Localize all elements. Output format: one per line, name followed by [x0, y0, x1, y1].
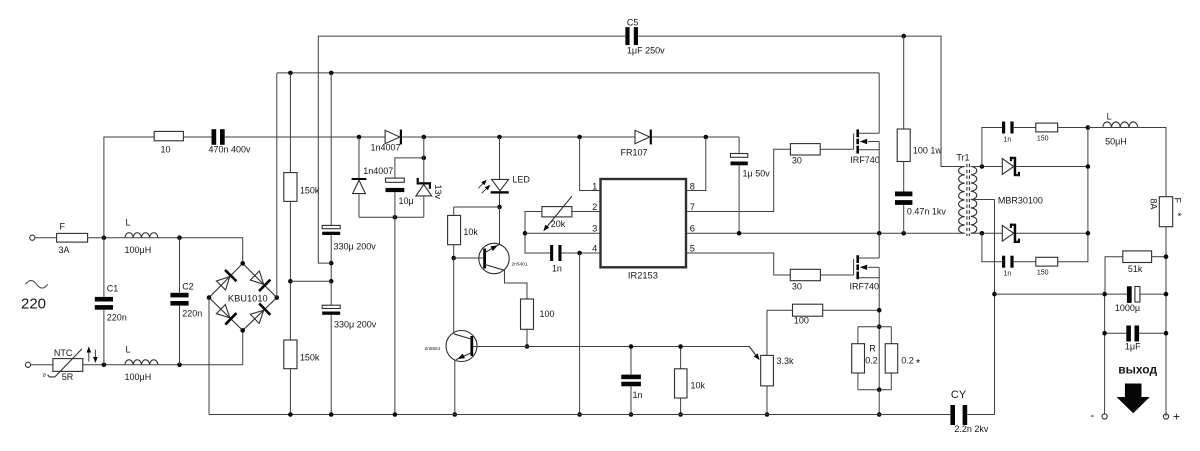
- node divider mid 330u: [329, 279, 334, 284]
- wire 51k right: [1152, 256, 1166, 258]
- wire: [183, 136, 211, 138]
- node bridge left: [207, 295, 212, 300]
- node 10k top: [678, 344, 683, 349]
- wire Q2 emitter to rail: [454, 360, 456, 415]
- wire pin8 bootstrap: [686, 137, 706, 191]
- capacitor CY 2.2n 2kv: [950, 405, 955, 425]
- wire 100 right: [823, 309, 880, 311]
- wire pin4 node to ground rail: [579, 253, 581, 415]
- wire 100 left to pot: [767, 310, 793, 355]
- wire pin2: [572, 211, 601, 213]
- capacitor 10u: [395, 158, 424, 178]
- node zener branch A: [357, 135, 362, 140]
- svg-text:1μ 50v: 1μ 50v: [743, 169, 771, 179]
- inductor L 100uH top: [125, 233, 158, 238]
- svg-text:3: 3: [592, 224, 597, 234]
- node half-bridge midpoint: [877, 231, 882, 236]
- wire pin3: [525, 232, 601, 234]
- node 1n top: [629, 344, 634, 349]
- svg-text:1μF 250v: 1μF 250v: [627, 46, 665, 56]
- inductor L 50uH: [1088, 127, 1103, 129]
- wire secondary bottom tap: [971, 232, 1002, 234]
- wire: [652, 136, 739, 138]
- node divider mid 150k: [288, 279, 293, 284]
- svg-text:100μH: 100μH: [125, 245, 152, 255]
- svg-text:10μ: 10μ: [399, 196, 414, 206]
- node rect out D2: [1086, 231, 1091, 236]
- capacitor 1uF out: [1105, 332, 1127, 334]
- wire bridge plus up to DC bus: [276, 73, 278, 298]
- wire M2 source down: [878, 267, 880, 389]
- resistor 51k: [1123, 251, 1152, 263]
- capacitor C1 220n: [103, 238, 105, 297]
- wire: [83, 364, 125, 366]
- potentiometer 3.3k: [761, 355, 774, 386]
- svg-text:MBR30100: MBR30100: [998, 195, 1043, 205]
- node C2 top: [177, 235, 182, 240]
- wire pin4: [562, 252, 601, 254]
- node emitter rail: [453, 412, 458, 417]
- wire: [225, 136, 385, 138]
- wire M1 source to midpoint: [878, 142, 880, 234]
- svg-text:L: L: [1107, 112, 1112, 122]
- node zener branch B: [422, 135, 427, 140]
- capacitor 1n snubber bottom: [1002, 256, 1005, 268]
- node snubber top: [901, 34, 906, 39]
- node 1000u minus: [1102, 292, 1107, 297]
- svg-text:1n: 1n: [633, 390, 643, 400]
- svg-text:330μ 200v: 330μ 200v: [334, 241, 377, 251]
- wire C5 right to transformer: [638, 36, 965, 166]
- transistor Q1 2n5401: [479, 243, 509, 273]
- wire: [820, 274, 853, 276]
- wire M2 drain to midpoint: [878, 233, 880, 258]
- node 150k top: [288, 71, 293, 76]
- node 1uF minus: [1102, 331, 1107, 336]
- svg-text:30: 30: [792, 156, 802, 166]
- resistor 150k lower: [289, 281, 291, 340]
- node rect out top: [1086, 125, 1091, 130]
- svg-text:C1: C1: [107, 284, 119, 294]
- svg-text:10k: 10k: [463, 227, 478, 237]
- svg-text:IRF740: IRF740: [850, 155, 880, 165]
- svg-text:150k: 150k: [300, 353, 320, 363]
- wire M1 drain to DC+: [878, 73, 880, 133]
- wire to ground rail: [394, 217, 396, 414]
- svg-text:IRF740: IRF740: [850, 281, 880, 291]
- wire: [1014, 127, 1036, 129]
- wire Q1 collector to 100: [505, 270, 528, 299]
- node 10k rail: [678, 412, 683, 417]
- svg-text:-: -: [1090, 408, 1094, 422]
- wire snubber top branch: [982, 128, 1002, 167]
- node 1uF plus: [1164, 331, 1169, 336]
- svg-text:5R: 5R: [62, 372, 74, 382]
- diode 1n4007 series: [385, 130, 400, 143]
- svg-text:*: *: [1171, 213, 1182, 217]
- node sec bottom: [980, 231, 985, 236]
- output arrow: [1117, 384, 1150, 414]
- node rail 330u: [329, 412, 334, 417]
- capacitor 330u 200v upper: [330, 73, 332, 226]
- capacitor 330u 200v lower: [322, 305, 340, 308]
- svg-text:51k: 51k: [1128, 264, 1143, 274]
- resistor 30 lower: [790, 269, 820, 280]
- capacitor 1n timing: [550, 245, 553, 261]
- svg-text:100: 100: [794, 316, 809, 326]
- svg-text:*: *: [916, 358, 921, 370]
- wire: [1016, 166, 1088, 168]
- wire Q2 base net: [472, 346, 527, 348]
- capacitor C5 1uF 250v: [625, 27, 629, 45]
- transistor M1 IRF740 upper: [853, 134, 855, 150]
- capacitor 1n snubber top: [1002, 122, 1005, 134]
- resistor 150 top: [1036, 123, 1058, 132]
- node pin4: [577, 251, 582, 256]
- svg-text:220n: 220n: [107, 312, 127, 322]
- node 1u bottom: [737, 231, 742, 236]
- resistor 100 feedback: [793, 304, 823, 316]
- node pin3 tap: [523, 231, 528, 236]
- node snubber bottom: [901, 231, 906, 236]
- svg-text:KBU1010: KBU1010: [228, 293, 268, 303]
- resistor 30 upper: [790, 144, 820, 155]
- svg-text:8: 8: [690, 181, 695, 191]
- svg-text:50μH: 50μH: [1105, 137, 1127, 147]
- diode D2 MBR30100 bottom: [1002, 225, 1013, 241]
- resistor 100 1w: [903, 36, 905, 129]
- node rail zener: [393, 412, 398, 417]
- svg-text:100μH: 100μH: [125, 372, 152, 382]
- wire pin7 HO: [686, 149, 790, 211]
- wire 51k left to minus: [1105, 257, 1123, 294]
- wire: [402, 136, 635, 138]
- diode D1 MBR30100 top: [1002, 159, 1013, 175]
- node C5 tap: [329, 261, 334, 266]
- svg-text:NTC: NTC: [54, 348, 73, 358]
- inrush arrows: [88, 349, 90, 362]
- svg-text:выход: выход: [1118, 363, 1157, 377]
- node sec top: [980, 164, 985, 169]
- svg-text:7: 7: [690, 202, 695, 212]
- node source 100: [877, 308, 882, 313]
- wire primary ground rail: [209, 414, 950, 416]
- svg-text:150: 150: [1037, 136, 1049, 143]
- wire pin1 Vcc: [580, 137, 601, 191]
- svg-text:1: 1: [592, 181, 597, 191]
- wire bridge minus down to ground rail: [208, 298, 210, 415]
- svg-text:0.2: 0.2: [865, 355, 878, 365]
- wire: [820, 148, 853, 150]
- svg-text:150k: 150k: [300, 186, 320, 196]
- svg-text:1n: 1n: [1004, 136, 1012, 143]
- node LED cathode: [497, 205, 502, 210]
- svg-text:20k: 20k: [551, 219, 566, 229]
- node C2 bottom: [177, 363, 182, 368]
- svg-text:330μ 200v: 330μ 200v: [334, 320, 377, 330]
- wire Q2 collector: [453, 258, 455, 334]
- wire snubber bottom branch: [982, 233, 1002, 261]
- fuse F 8A output: [1159, 197, 1172, 227]
- resistor R 0.2 pair: [877, 324, 882, 329]
- svg-text:LED: LED: [512, 175, 530, 185]
- svg-text:3.3k: 3.3k: [777, 356, 795, 366]
- terminal top input: [30, 235, 35, 240]
- wire: [158, 330, 243, 364]
- wire: [158, 238, 243, 264]
- capacitor C2 220n: [179, 238, 181, 293]
- svg-text:470n 400v: 470n 400v: [209, 145, 252, 155]
- svg-text:5: 5: [690, 244, 695, 254]
- fuse F 3A: [57, 233, 88, 242]
- resistor 10: [154, 131, 183, 140]
- node 1000u plus: [1164, 292, 1169, 297]
- svg-text:C5: C5: [627, 18, 639, 28]
- capacitor 1u 50v: [738, 137, 740, 154]
- resistor 10k upper: [453, 207, 455, 215]
- node rail 150k: [288, 412, 293, 417]
- transistor Q2 2n5551: [446, 331, 477, 362]
- capacitor 1n lower: [630, 347, 632, 375]
- node ground branch: [393, 215, 398, 220]
- node C1 top: [102, 235, 107, 240]
- svg-text:1n4007: 1n4007: [363, 166, 393, 176]
- svg-text:3A: 3A: [59, 245, 70, 255]
- svg-text:F: F: [1173, 198, 1183, 204]
- svg-text:FR107: FR107: [621, 147, 648, 157]
- bridge rectifier KBU1010: [209, 263, 277, 330]
- terminal minus: [1102, 414, 1107, 419]
- svg-text:IR2153: IR2153: [628, 271, 658, 281]
- resistor 100 vertical: [521, 299, 534, 329]
- wire 10k top: [454, 206, 500, 208]
- wire: [1016, 232, 1088, 234]
- wire zener subnet bottom: [359, 216, 424, 218]
- svg-text:0.2: 0.2: [901, 355, 914, 365]
- AC source symbol ~220: [26, 281, 48, 289]
- node C1 bottom: [102, 363, 107, 368]
- svg-text:1n: 1n: [552, 264, 562, 274]
- wire dropper from AC line: [104, 137, 154, 238]
- wire secondary center tap: [971, 199, 995, 201]
- svg-text:L: L: [126, 217, 131, 227]
- svg-text:2: 2: [592, 202, 597, 212]
- resistor 150k upper: [289, 73, 291, 173]
- wire: [88, 237, 125, 239]
- resistor 150 bottom: [1036, 257, 1058, 266]
- svg-text:F: F: [60, 222, 66, 232]
- svg-text:220: 220: [21, 296, 46, 313]
- svg-text:30: 30: [792, 281, 802, 291]
- node rail R pair: [877, 412, 882, 417]
- potentiometer 20k: [542, 207, 572, 217]
- svg-text:100 1w: 100 1w: [913, 146, 943, 156]
- svg-text:1000μ: 1000μ: [1115, 303, 1140, 313]
- node 51k plus: [1164, 254, 1169, 259]
- zener 13v: [423, 137, 425, 182]
- svg-text:150: 150: [1037, 270, 1049, 277]
- svg-text:4: 4: [592, 244, 597, 254]
- svg-text:1n4007: 1n4007: [371, 142, 401, 152]
- node rail: [577, 412, 582, 417]
- svg-text:220n: 220n: [182, 308, 202, 318]
- svg-text:C2: C2: [182, 281, 194, 291]
- wire: [499, 207, 501, 244]
- capacitor 1000u: [1105, 293, 1127, 295]
- wire minus column: [1104, 294, 1106, 414]
- node rail 3.3k: [765, 412, 770, 417]
- LED arrows: [478, 181, 485, 188]
- wire center tap to CY: [994, 200, 996, 415]
- wire pin6 VS midpoint: [686, 232, 965, 234]
- wire center tap to minus: [995, 293, 1105, 295]
- wire: [1138, 128, 1166, 197]
- node LED branch: [497, 135, 502, 140]
- node 10u top: [422, 156, 427, 161]
- wire: [35, 237, 57, 239]
- svg-text:10k: 10k: [691, 381, 706, 391]
- wire pot left: [525, 212, 550, 254]
- diode 1n4007 shunt: [358, 137, 360, 179]
- IC U1 IR2153: [601, 179, 687, 267]
- capacitor 470n 400v: [212, 129, 217, 145]
- svg-text:0.47n 1kv: 0.47n 1kv: [907, 207, 947, 217]
- thermistor NTC 5R: [53, 359, 83, 372]
- svg-text:13v: 13v: [433, 185, 443, 200]
- wire: [31, 364, 53, 366]
- transistor M2 IRF740 lower: [853, 259, 855, 275]
- svg-text:L: L: [126, 345, 131, 355]
- wire C5 left branch: [318, 36, 625, 263]
- wire: [1058, 128, 1088, 262]
- svg-text:Tr1: Tr1: [956, 153, 969, 163]
- svg-text:8A: 8A: [1148, 199, 1158, 210]
- wire divider midpoint link: [290, 280, 331, 282]
- wire: [1014, 261, 1036, 263]
- svg-text:ϑ: ϑ: [43, 373, 46, 379]
- node bridge top: [240, 261, 245, 266]
- svg-text:2n5401: 2n5401: [512, 262, 528, 268]
- node pin8 branch: [704, 135, 709, 140]
- node bridge bottom: [240, 328, 245, 333]
- node bridge right: [275, 295, 280, 300]
- svg-text:2n5551: 2n5551: [424, 346, 440, 352]
- node Q1 base: [451, 256, 456, 261]
- terminal bottom input: [25, 362, 30, 367]
- wire DC+ bus: [277, 72, 879, 74]
- wire pin5 LO: [686, 253, 790, 275]
- capacitor 0.47n 1kv: [903, 162, 905, 192]
- inductor L 100uH bottom: [125, 360, 158, 365]
- wire secondary top tap: [971, 166, 1002, 168]
- wire 3.3k bottom: [766, 386, 768, 415]
- svg-text:+: +: [1173, 410, 1180, 424]
- node rect out D1: [1086, 164, 1091, 169]
- svg-text:2.2n 2kv: 2.2n 2kv: [954, 424, 989, 434]
- node center tap out: [992, 292, 997, 297]
- LED: [499, 137, 501, 179]
- resistor 10k lower: [680, 347, 682, 369]
- terminal plus: [1163, 414, 1168, 419]
- svg-text:1n: 1n: [1004, 271, 1012, 278]
- node 1n rail: [629, 412, 634, 417]
- wire: [1165, 227, 1167, 417]
- node Vcc pin1 branch: [577, 135, 582, 140]
- svg-text:1μF: 1μF: [1125, 342, 1141, 352]
- svg-text:R: R: [869, 343, 876, 353]
- svg-text:10: 10: [161, 145, 171, 155]
- svg-text:100: 100: [540, 309, 555, 319]
- wire: [1058, 127, 1088, 129]
- diode FR107: [635, 130, 650, 143]
- node base junction Q2: [525, 344, 530, 349]
- svg-text:6: 6: [690, 224, 695, 234]
- node 330u top: [329, 71, 334, 76]
- svg-text:CY: CY: [951, 389, 967, 401]
